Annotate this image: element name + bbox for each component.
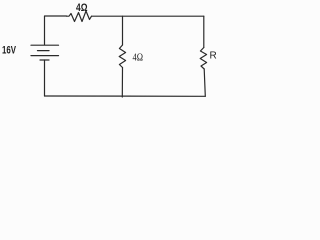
svg-text:4Ω: 4Ω [133,53,144,64]
wire right branch bottom [204,69,205,96]
resistor R-top 4ohm zigzag [67,11,92,22]
battery B1 plate short upper [38,50,50,52]
resistor R-mid 4ohm zigzag [119,45,125,68]
node A junction middle branch top [122,16,124,45]
svg-text:16V: 16V [2,45,16,57]
svg-text:R: R [210,50,217,61]
wire top-left segment [45,16,67,45]
battery B1 plate long lower [31,55,59,57]
battery B1 plate long top [31,44,59,46]
resistor R zigzag [200,48,206,70]
battery B1 plate short bottom [40,59,49,61]
wire bottom segment [45,95,206,97]
wire right branch top [203,16,205,47]
wire top-right segment [92,15,204,17]
wire middle branch bottom [121,68,123,98]
wire battery negative lead [44,60,46,96]
svg-text:4Ω: 4Ω [76,2,88,14]
